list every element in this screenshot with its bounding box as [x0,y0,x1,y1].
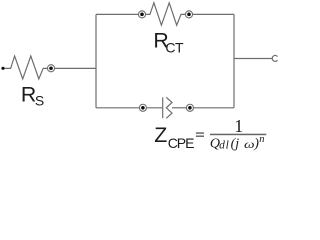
svg-text:dl: dl [219,140,230,152]
svg-text:(j: (j [231,137,240,152]
svg-text:n: n [259,134,264,145]
svg-text:CT: CT [165,39,184,55]
svg-text:1: 1 [234,116,243,136]
svg-text:): ) [253,137,259,152]
svg-text:ω: ω [244,137,255,151]
svg-text:S: S [35,93,44,109]
svg-text:CPE: CPE [168,135,194,151]
svg-text:Z: Z [154,123,167,147]
